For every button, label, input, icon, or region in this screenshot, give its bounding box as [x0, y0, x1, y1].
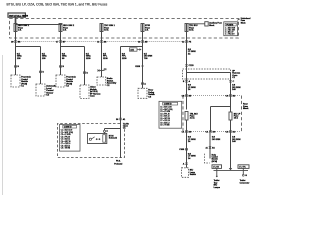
- svg-text:CONN ID: CONN ID: [64, 127, 72, 129]
- svg-text:Level: Level: [46, 88, 52, 90]
- svg-text:C220: C220: [189, 65, 195, 67]
- svg-text:LT GRN: LT GRN: [188, 139, 196, 141]
- svg-text:BTSI: BTSI: [109, 135, 114, 137]
- svg-text:TRL B/U: TRL B/U: [189, 25, 198, 27]
- svg-text:Lamp: Lamp: [190, 172, 196, 174]
- svg-text:DK GRN: DK GRN: [212, 139, 221, 141]
- svg-text:(PCM): (PCM): [21, 83, 27, 85]
- svg-text:DK GRN: DK GRN: [232, 87, 241, 89]
- svg-text:Body: Body: [212, 154, 216, 156]
- svg-text:Module: Module: [90, 89, 97, 91]
- svg-text:1139: 1139: [86, 58, 91, 60]
- svg-text:BTSI: BTSI: [145, 25, 150, 27]
- svg-text:Conn: Conn: [232, 75, 238, 77]
- svg-text:3 = B/U LP: 3 = B/U LP: [225, 32, 234, 34]
- svg-text:Block: Block: [243, 108, 249, 110]
- svg-text:1 = SEO IGN: 1 = SEO IGN: [225, 28, 236, 30]
- svg-text:Conn: Conn: [90, 96, 95, 98]
- svg-text:(BCM): (BCM): [212, 161, 218, 163]
- svg-text:Underhood: Underhood: [241, 18, 251, 20]
- svg-text:4 = TRL B/U: 4 = TRL B/U: [225, 34, 235, 36]
- svg-text:Fuse: Fuse: [104, 27, 110, 29]
- svg-text:Module: Module: [21, 81, 28, 83]
- svg-text:I/P Harness: I/P Harness: [90, 93, 100, 95]
- svg-text:Solenoid: Solenoid: [109, 138, 118, 140]
- svg-text:LT GRN: LT GRN: [188, 156, 196, 158]
- svg-text:Module: Module: [212, 159, 218, 161]
- svg-text:SEO IGN 1: SEO IGN 1: [18, 25, 30, 27]
- svg-text:1139: 1139: [103, 58, 108, 60]
- svg-text:TRL B/U: TRL B/U: [190, 113, 198, 115]
- svg-text:1139: 1139: [122, 58, 127, 60]
- svg-text:FUSES: FUSES: [226, 24, 233, 26]
- svg-text:Fuse: Fuse: [243, 106, 249, 108]
- svg-text:DK GRN: DK GRN: [144, 56, 153, 58]
- svg-text:TBC IGN 1: TBC IGN 1: [104, 25, 115, 27]
- svg-text:SEO IGN 2: SEO IGN 2: [63, 25, 75, 27]
- svg-text:(PCM): (PCM): [66, 83, 72, 85]
- svg-text:Module: Module: [66, 81, 73, 83]
- svg-text:B/U: B/U: [214, 185, 218, 187]
- svg-text:B/U: B/U: [190, 170, 194, 172]
- svg-text:Block: Block: [241, 22, 246, 24]
- svg-text:Conn: Conn: [123, 126, 129, 128]
- svg-text:2 = TBC IGN: 2 = TBC IGN: [225, 30, 235, 32]
- svg-text:Chime: Chime: [90, 87, 97, 89]
- svg-text:(w/ UL5): (w/ UL5): [90, 91, 98, 93]
- svg-text:C305: C305: [179, 149, 185, 151]
- svg-text:Block: Block: [209, 25, 214, 27]
- svg-text:LT GRN: LT GRN: [188, 51, 196, 53]
- svg-text:Tow: Tow: [214, 182, 218, 184]
- svg-text:CONN ID: CONN ID: [164, 104, 172, 106]
- svg-text:Fuse: Fuse: [241, 20, 245, 22]
- svg-text:B/U LP: B/U LP: [234, 113, 241, 115]
- svg-text:Fuse: Fuse: [189, 27, 195, 29]
- svg-text:Fuse: Fuse: [145, 27, 151, 29]
- svg-text:Lamps: Lamps: [214, 187, 220, 189]
- svg-text:BTSI, B/U LP, OZA, COB, SEO IG: BTSI, B/U LP, OZA, COB, SEO IGN, TBC IGN…: [7, 2, 108, 6]
- svg-text:Fuse: Fuse: [63, 27, 69, 29]
- svg-text:DK GRN: DK GRN: [232, 139, 241, 141]
- svg-text:Defog: Defog: [148, 92, 155, 94]
- svg-text:Fuse: Fuse: [18, 27, 24, 29]
- svg-text:LT GRN: LT GRN: [188, 87, 196, 89]
